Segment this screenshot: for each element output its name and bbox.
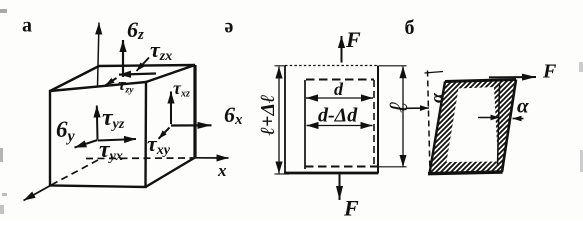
svg-text:6x: 6x (224, 102, 243, 128)
svg-text:а: а (22, 15, 32, 37)
svg-text:τzx: τzx (150, 37, 172, 64)
svg-text:F: F (343, 196, 359, 221)
svg-text:ә: ә (225, 16, 234, 38)
svg-text:6y: 6y (56, 117, 76, 145)
svg-text:x: x (217, 161, 227, 180)
svg-text:τxz: τxz (173, 78, 190, 100)
svg-text:τzy: τzy (118, 75, 134, 96)
svg-text:б: б (405, 17, 415, 39)
svg-text:α: α (517, 94, 529, 118)
svg-text:ℓ: ℓ (384, 101, 413, 112)
svg-text:F: F (345, 27, 361, 52)
svg-text:F: F (542, 61, 557, 83)
svg-text:d: d (334, 79, 344, 99)
svg-text:d-Δd: d-Δd (318, 105, 358, 127)
svg-text:τxy: τxy (147, 131, 171, 158)
svg-text:τyz: τyz (102, 105, 125, 132)
svg-text:ℓ+Δℓ: ℓ+Δℓ (257, 94, 279, 135)
svg-text:6z: 6z (127, 17, 144, 43)
svg-text:τyx: τyx (99, 137, 123, 164)
svg-text:α: α (427, 92, 447, 103)
